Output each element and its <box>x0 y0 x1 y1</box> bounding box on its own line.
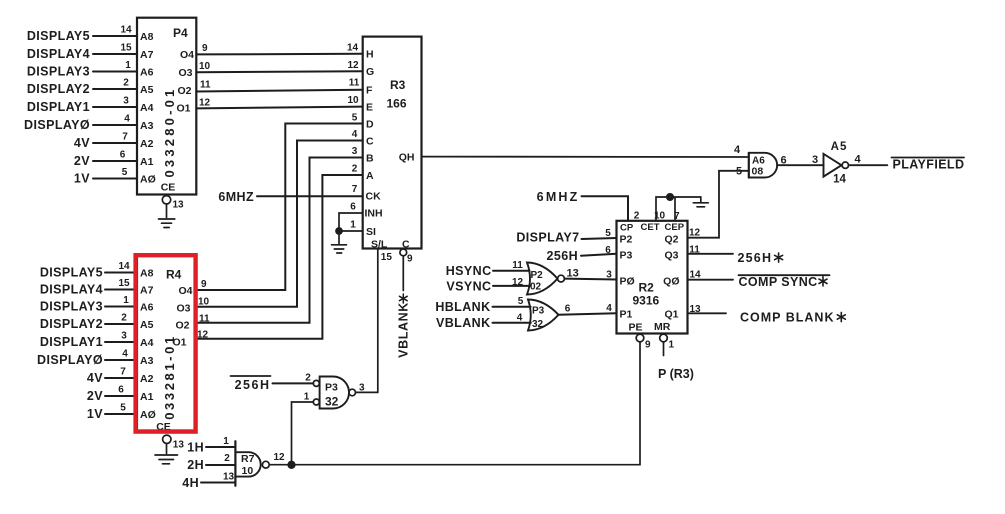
svg-text:MR: MR <box>654 321 671 333</box>
wire DISPLAY2 to R4 A5 pin 2 <box>40 313 154 332</box>
wire DISPLAY0 to R4 A3 pin 4 <box>37 349 154 368</box>
svg-text:QH: QH <box>399 152 415 164</box>
svg-text:2: 2 <box>305 373 311 384</box>
svg-text:O1: O1 <box>176 102 190 114</box>
svg-text:O2: O2 <box>177 85 191 97</box>
svg-text:14: 14 <box>689 270 701 281</box>
R3 A pin 2 label <box>352 164 374 182</box>
svg-text:P4: P4 <box>173 26 188 40</box>
svg-text:6: 6 <box>605 245 611 256</box>
svg-text:A3: A3 <box>140 120 154 132</box>
svg-text:VBLANK: VBLANK <box>397 302 411 358</box>
svg-text:7: 7 <box>122 132 128 143</box>
svg-text:2: 2 <box>123 78 129 89</box>
svg-text:08: 08 <box>752 166 764 178</box>
svg-text:P2: P2 <box>620 234 633 246</box>
svg-text:A7: A7 <box>140 49 154 61</box>
svg-text:3: 3 <box>812 154 818 166</box>
svg-text:A1: A1 <box>140 391 154 403</box>
svg-text:2V: 2V <box>74 154 90 168</box>
wire 4V to P4 A2 pin 7 <box>74 132 154 151</box>
svg-text:A6: A6 <box>140 302 154 314</box>
svg-text:VBLANK: VBLANK <box>436 316 490 330</box>
svg-text:A5: A5 <box>140 84 154 96</box>
svg-text:4: 4 <box>124 114 130 125</box>
svg-text:D: D <box>366 119 374 131</box>
wire 2V to R4 A1 pin 6 <box>87 385 154 404</box>
svg-text:Q2: Q2 <box>664 234 678 246</box>
svg-text:11: 11 <box>200 80 211 91</box>
svg-text:O1: O1 <box>172 336 186 348</box>
wire R4 O4 pin 9 up to R3 D pin 5 <box>178 124 362 298</box>
wire R7 output pin 12 to R2 PE, junction to P3 pin1 <box>269 342 640 468</box>
R3 INH pin 6 tied to SI pin 1 and ground <box>332 202 383 254</box>
and-gate A6 7408 <box>749 153 777 178</box>
wire DISPLAY3 to P4 A6 pin 1 <box>27 60 154 79</box>
svg-text:2: 2 <box>121 313 127 324</box>
wire 1H to R7 pin 1 <box>187 436 235 455</box>
svg-text:9316: 9316 <box>633 294 660 308</box>
wire R2 Q1 pin 13 to net COMP BLANK* <box>688 304 846 325</box>
wire DISPLAY4 to P4 A7 pin 15 <box>27 43 154 62</box>
svg-text:C: C <box>366 136 374 148</box>
wire 2H to R7 pin 2 <box>187 453 235 472</box>
svg-text:A2: A2 <box>140 138 154 150</box>
chip R3 74166 body <box>363 37 422 251</box>
svg-text:10: 10 <box>242 465 254 477</box>
svg-text:PE: PE <box>629 322 643 334</box>
svg-text:O3: O3 <box>176 303 190 315</box>
wire R4 O3 pin 10 up to R3 C pin 4 <box>176 141 362 315</box>
wire DISPLAY7 to R2 P2 pin 5 <box>516 228 616 245</box>
svg-text:P2: P2 <box>531 270 544 281</box>
svg-text:32: 32 <box>532 319 544 330</box>
R3 QH output label <box>399 152 415 164</box>
R3 S/L pin 15 stub down to gate P3 output <box>378 249 393 393</box>
svg-text:DISPLAY5: DISPLAY5 <box>40 266 103 280</box>
svg-text:P3: P3 <box>325 382 338 394</box>
svg-text:02: 02 <box>530 282 542 293</box>
svg-text:O4: O4 <box>180 49 194 61</box>
svg-text:2: 2 <box>224 453 230 464</box>
R4 CE pin 13 with ground <box>155 421 184 464</box>
svg-text:A3: A3 <box>140 355 154 367</box>
wire P4 O3 pin 10 to R3 G pin 12 <box>178 60 374 79</box>
svg-text:DISPLAY1: DISPLAY1 <box>27 100 90 114</box>
svg-text:F: F <box>366 85 373 97</box>
svg-text:14: 14 <box>347 43 359 54</box>
svg-text:11: 11 <box>349 78 360 89</box>
svg-text:5: 5 <box>122 167 128 178</box>
svg-text:11: 11 <box>689 245 700 256</box>
wire R4 O2 pin 11 up to R3 B pin 3 <box>175 158 362 332</box>
svg-text:256H: 256H <box>738 251 773 265</box>
svg-text:166: 166 <box>387 97 407 111</box>
svg-text:P (R3): P (R3) <box>658 367 694 381</box>
wire 6MHZ to R3 CK pin 7 <box>218 184 381 204</box>
svg-text:15: 15 <box>118 278 130 289</box>
svg-text:3: 3 <box>123 96 129 107</box>
svg-text:Q3: Q3 <box>664 250 678 262</box>
svg-text:10: 10 <box>347 95 359 106</box>
svg-text:256H: 256H <box>547 249 578 263</box>
wire 1V to R4 A0 pin 5 <box>87 403 156 422</box>
svg-text:12: 12 <box>512 277 524 288</box>
svg-text:DISPLAY2: DISPLAY2 <box>27 82 90 96</box>
svg-text:4: 4 <box>734 144 741 156</box>
wire gate P3 output pin 3 to R3 S/L <box>356 383 378 394</box>
R2 CET pin 10 / CEP pin 7 tie with ground <box>654 194 708 222</box>
P4 CE pin 13 with ground <box>159 182 185 228</box>
svg-text:10: 10 <box>654 211 666 222</box>
svg-text:R4: R4 <box>166 268 182 282</box>
svg-text:E: E <box>366 102 373 114</box>
wire A6 output pin 6 to inverter A5 pin 3 <box>777 154 823 167</box>
svg-text:SI: SI <box>366 226 376 238</box>
svg-text:4V: 4V <box>87 371 103 385</box>
svg-text:4: 4 <box>122 349 128 360</box>
svg-text:DISPLAY3: DISPLAY3 <box>27 65 90 79</box>
svg-text:A2: A2 <box>140 373 154 385</box>
red highlight box around R4 <box>136 255 196 431</box>
wire DISPLAY3 to R4 A6 pin 1 <box>40 295 154 314</box>
svg-text:P3: P3 <box>532 306 545 317</box>
svg-text:6: 6 <box>780 155 786 167</box>
svg-text:9: 9 <box>202 43 208 54</box>
svg-text:4: 4 <box>606 303 612 314</box>
svg-text:6MHZ: 6MHZ <box>537 190 580 204</box>
svg-text:DISPLAY5: DISPLAY5 <box>27 29 90 43</box>
svg-text:6MHZ: 6MHZ <box>218 190 254 204</box>
R3 D pin 5 label <box>352 112 374 130</box>
svg-text:O4: O4 <box>178 285 192 297</box>
R2 PE pin 9 <box>636 334 651 350</box>
svg-text:9: 9 <box>407 254 413 265</box>
svg-text:13: 13 <box>173 200 185 211</box>
svg-text:CEP: CEP <box>665 222 685 233</box>
svg-text:DISPLAY7: DISPLAY7 <box>516 231 579 245</box>
svg-text:CP: CP <box>620 223 634 234</box>
svg-text:AØ: AØ <box>140 174 156 186</box>
R3 C pin 9 with net VBLANK* <box>397 249 414 358</box>
svg-text:A1: A1 <box>140 156 154 168</box>
svg-text:S/L: S/L <box>371 238 388 250</box>
svg-text:INH: INH <box>365 208 383 220</box>
svg-text:1: 1 <box>125 60 131 71</box>
svg-text:O3: O3 <box>178 67 192 79</box>
svg-text:DISPLAY4: DISPLAY4 <box>40 283 103 297</box>
svg-text:CET: CET <box>641 222 660 233</box>
wire 1V to P4 A0 pin 5 <box>74 167 156 186</box>
svg-text:12: 12 <box>689 228 701 239</box>
svg-text:033280-01: 033280-01 <box>162 87 177 178</box>
svg-text:AØ: AØ <box>140 409 156 421</box>
wire DISPLAY5 to R4 A8 pin 14 <box>40 261 154 280</box>
wire P4 O1 pin 12 to R3 E pin 10 <box>176 95 373 114</box>
svg-text:DISPLAYØ: DISPLAYØ <box>37 353 103 367</box>
R2 MR pin 1 with net P (R3) <box>658 334 694 381</box>
svg-text:14: 14 <box>120 25 132 36</box>
svg-text:10: 10 <box>199 61 211 72</box>
wire R4 O1 pin 12 up to R3 A pin 2 <box>172 175 362 348</box>
wire 4H to R7 pin 13 <box>182 472 235 491</box>
svg-text:4V: 4V <box>74 136 90 150</box>
svg-text:A8: A8 <box>140 268 154 280</box>
svg-text:A4: A4 <box>140 102 154 114</box>
svg-text:CK: CK <box>366 191 382 203</box>
or-gate P3 7432 (256H / R7 out) <box>313 377 355 409</box>
svg-text:R7: R7 <box>241 453 255 465</box>
wire P3 output pin 6 to R2 P1 pin 4 <box>559 303 617 315</box>
wire 2V to P4 A1 pin 6 <box>74 150 154 169</box>
wire DISPLAY5 to P4 A8 pin 14 <box>27 25 154 44</box>
svg-text:7: 7 <box>352 184 358 195</box>
svg-text:DISPLAY4: DISPLAY4 <box>27 47 90 61</box>
svg-text:2V: 2V <box>87 389 103 403</box>
svg-text:1H: 1H <box>187 441 204 455</box>
svg-text:5: 5 <box>518 296 524 307</box>
svg-text:10: 10 <box>198 297 210 308</box>
svg-text:11: 11 <box>512 260 523 271</box>
svg-text:15: 15 <box>381 252 393 263</box>
svg-text:1V: 1V <box>74 172 90 186</box>
svg-text:3: 3 <box>359 383 365 394</box>
svg-text:12: 12 <box>347 60 359 71</box>
svg-text:A8: A8 <box>140 31 154 43</box>
svg-text:5: 5 <box>736 166 742 178</box>
wire QH output to gate A6 pin 4 <box>422 144 749 157</box>
svg-text:12: 12 <box>274 452 286 463</box>
wire 256H-bar to gate P3 pin 2 <box>231 373 314 393</box>
wire 6MHZ to R2 CP pin 2 <box>537 190 640 222</box>
svg-text:7: 7 <box>674 211 680 222</box>
svg-text:3: 3 <box>121 331 127 342</box>
wire VBLANK to P3 pin 4 <box>436 313 531 331</box>
svg-text:1: 1 <box>304 392 310 403</box>
svg-text:14: 14 <box>118 261 130 272</box>
chip R4 033281-01 body <box>137 255 196 430</box>
svg-text:4: 4 <box>517 313 523 324</box>
wire DISPLAY4 to R4 A7 pin 15 <box>40 278 154 297</box>
svg-text:DISPLAYØ: DISPLAYØ <box>24 118 90 132</box>
svg-text:2: 2 <box>352 164 358 175</box>
svg-text:P1: P1 <box>620 309 633 321</box>
wire P4 O2 pin 11 to R3 F pin 11 <box>177 78 373 97</box>
svg-text:6: 6 <box>118 385 124 396</box>
svg-text:5: 5 <box>605 228 611 239</box>
svg-text:COMP BLANK: COMP BLANK <box>740 311 835 325</box>
svg-text:11: 11 <box>199 314 210 325</box>
svg-text:1: 1 <box>223 436 229 447</box>
wire gate P3 pin 1 from R7 output junction <box>292 392 314 462</box>
inverter A5 7414 <box>824 141 849 186</box>
svg-text:2H: 2H <box>187 458 204 472</box>
svg-text:A5: A5 <box>831 141 848 153</box>
svg-text:1: 1 <box>350 220 356 231</box>
svg-text:HBLANK: HBLANK <box>435 300 490 314</box>
svg-text:DISPLAY3: DISPLAY3 <box>40 300 103 314</box>
svg-text:14: 14 <box>833 174 846 186</box>
svg-text:PLAYFIELD: PLAYFIELD <box>893 158 965 172</box>
svg-text:13: 13 <box>689 304 701 315</box>
svg-text:A6: A6 <box>140 67 154 79</box>
wire 256H to R2 P3 pin 6 <box>547 245 617 263</box>
wire R2 Q3 pin 11 to net 256H* <box>688 245 783 266</box>
svg-text:A5: A5 <box>140 319 154 331</box>
R3 C pin 4 label <box>352 129 374 147</box>
R3 B pin 3 label <box>352 146 374 164</box>
wire P2 output pin 13 to R2 P0 pin 3 <box>564 268 616 281</box>
wire inverter output pin 4 to net PLAYFIELD <box>849 154 965 172</box>
svg-text:15: 15 <box>120 43 132 54</box>
chip R2 9316 body <box>617 221 688 334</box>
svg-text:A4: A4 <box>140 337 154 349</box>
svg-text:4H: 4H <box>182 476 199 490</box>
svg-text:4: 4 <box>352 129 358 140</box>
svg-text:H: H <box>366 49 374 61</box>
svg-text:13: 13 <box>567 268 579 280</box>
nand-gate R7 7410 (1H 2H 4H) <box>235 441 269 486</box>
nor-gate P2 7402 (HSYNC VSYNC) <box>527 263 564 295</box>
svg-text:CE: CE <box>161 182 176 194</box>
svg-text:256H: 256H <box>235 378 271 392</box>
svg-text:R3: R3 <box>390 78 406 92</box>
svg-text:DISPLAY2: DISPLAY2 <box>40 317 103 331</box>
wire DISPLAY0 to P4 A3 pin 4 <box>24 114 154 133</box>
svg-text:3: 3 <box>606 270 612 281</box>
svg-text:HSYNC: HSYNC <box>446 264 492 278</box>
or-gate P3 7432 (HBLANK VBLANK) <box>528 300 559 331</box>
svg-text:12: 12 <box>197 330 209 341</box>
svg-text:P3: P3 <box>620 250 633 262</box>
svg-text:A7: A7 <box>140 285 154 297</box>
wire DISPLAY1 to R4 A4 pin 3 <box>40 331 154 350</box>
svg-text:6: 6 <box>350 202 356 213</box>
wire HBLANK to P3 pin 5 <box>435 296 530 314</box>
svg-text:A: A <box>366 170 374 182</box>
svg-text:COMP SYNC: COMP SYNC <box>739 275 818 289</box>
svg-text:5: 5 <box>120 403 126 414</box>
svg-text:QØ: QØ <box>663 276 679 288</box>
svg-text:O2: O2 <box>175 320 189 332</box>
svg-text:9: 9 <box>645 340 651 351</box>
svg-text:4: 4 <box>855 154 862 166</box>
chip P4 033280-01 body <box>137 18 196 195</box>
svg-text:6: 6 <box>565 304 571 315</box>
wire R2 Q2 pin 12 up to gate A6 pin 5 <box>688 166 749 239</box>
svg-text:PØ: PØ <box>620 276 635 288</box>
svg-text:DISPLAY1: DISPLAY1 <box>40 335 103 349</box>
svg-text:2: 2 <box>634 211 640 222</box>
wire VSYNC to P2 pin 12 <box>446 277 529 294</box>
wire DISPLAY2 to P4 A5 pin 2 <box>27 78 154 97</box>
svg-text:1V: 1V <box>87 407 103 421</box>
svg-text:VSYNC: VSYNC <box>446 280 491 294</box>
svg-text:9: 9 <box>201 279 207 290</box>
svg-text:7: 7 <box>120 367 126 378</box>
wire R2 Q0 pin 14 to net COMP SYNC* <box>688 270 830 289</box>
svg-text:13: 13 <box>173 440 185 451</box>
wire HSYNC to P2 pin 11 <box>446 260 530 278</box>
svg-text:1: 1 <box>123 295 129 306</box>
svg-text:B: B <box>366 153 374 165</box>
wire DISPLAY1 to P4 A4 pin 3 <box>27 96 154 115</box>
svg-text:5: 5 <box>352 112 358 123</box>
svg-text:6: 6 <box>120 150 126 161</box>
svg-text:1: 1 <box>669 340 675 351</box>
svg-text:3: 3 <box>352 146 358 157</box>
svg-text:G: G <box>366 66 374 78</box>
svg-text:Q1: Q1 <box>664 309 678 321</box>
svg-text:R2: R2 <box>639 281 655 295</box>
svg-text:13: 13 <box>223 472 235 483</box>
wire 4V to R4 A2 pin 7 <box>87 367 154 386</box>
wire P4 O4 pin 9 to R3 H pin 14 <box>180 43 374 62</box>
svg-text:32: 32 <box>325 395 339 409</box>
svg-text:12: 12 <box>199 97 211 108</box>
